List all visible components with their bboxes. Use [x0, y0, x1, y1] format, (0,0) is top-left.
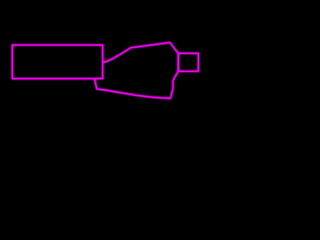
- left rectangle (glow): [12, 45, 102, 79]
- right small rectangle (glow): [178, 53, 198, 71]
- machine body polygon: [95, 43, 179, 99]
- CAD drawing: magenta outline silhouette on black: [0, 0, 200, 133]
- right small rectangle: [178, 53, 198, 71]
- left rectangle: [12, 45, 102, 79]
- machine body polygon (glow): [95, 43, 179, 99]
